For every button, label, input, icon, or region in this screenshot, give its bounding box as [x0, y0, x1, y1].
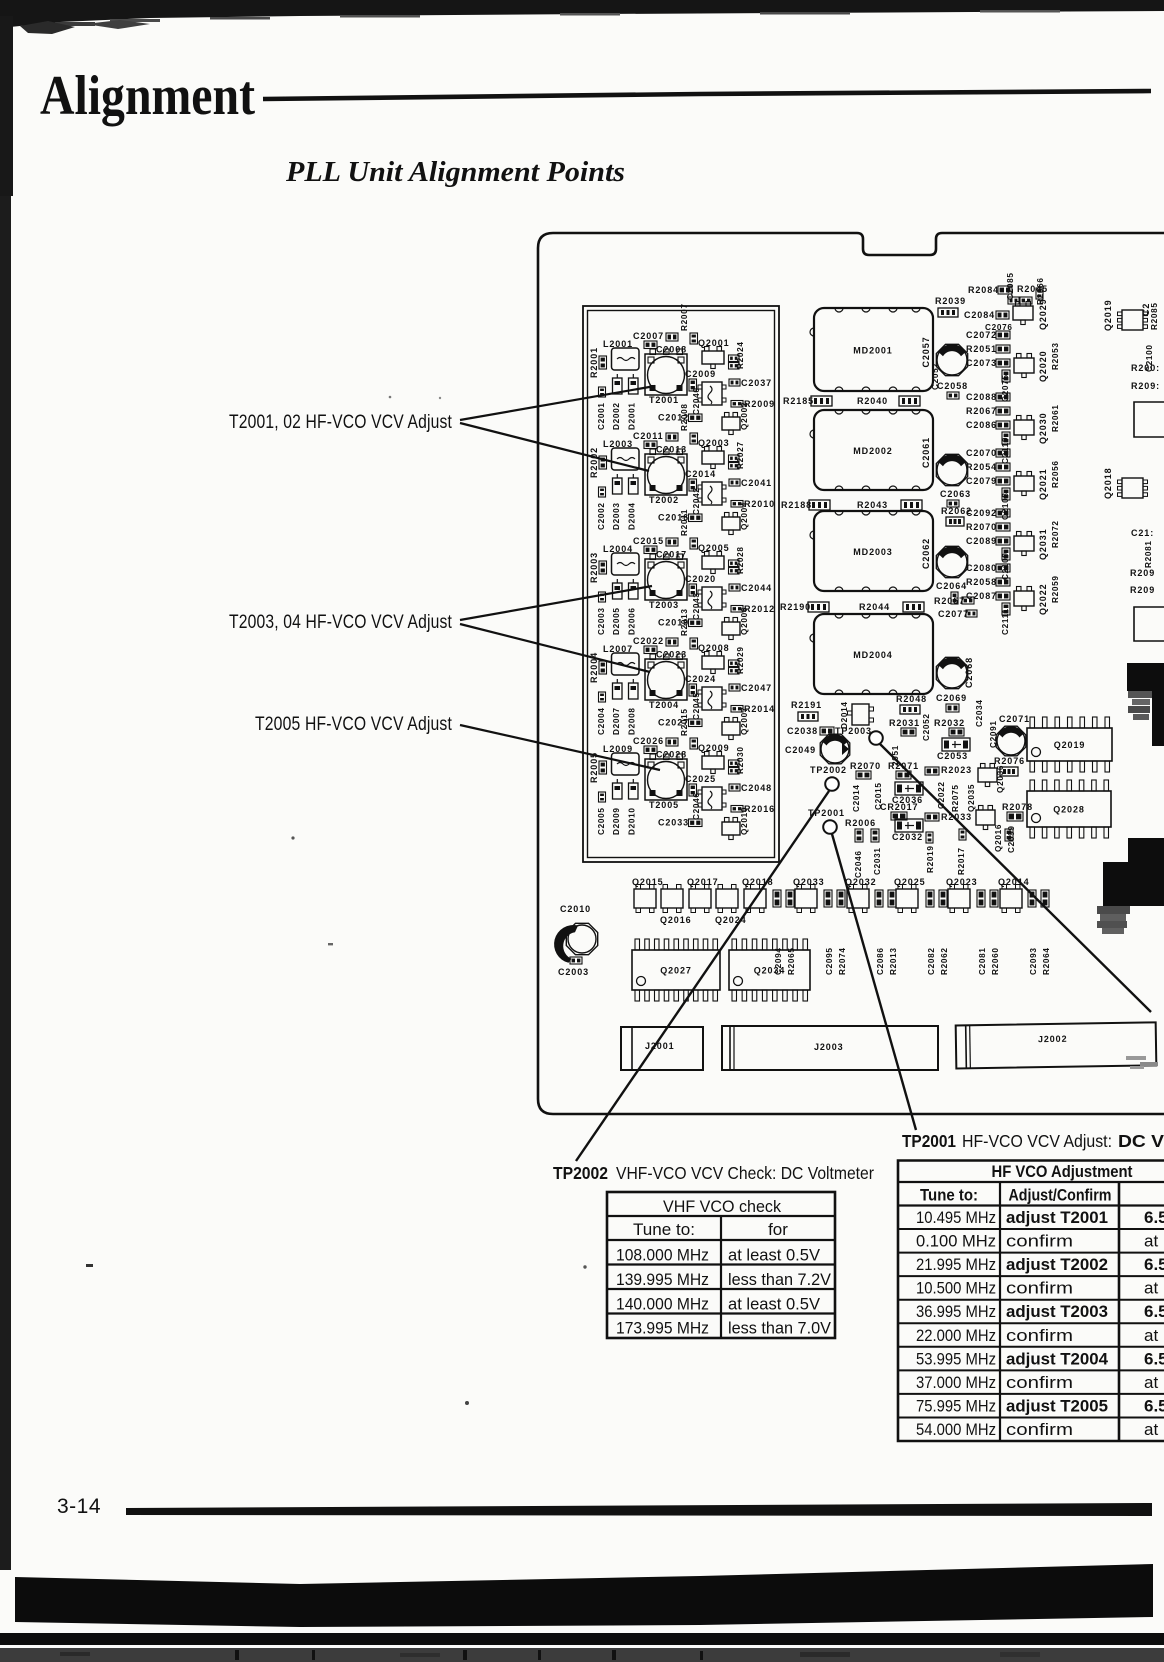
svg-text:R2058: R2058 — [966, 577, 997, 587]
label T2005 adjust — [255, 714, 452, 735]
resistor R2190 — [780, 602, 829, 612]
svg-text:C2070: C2070 — [966, 448, 997, 458]
svg-text:Q2021: Q2021 — [1038, 468, 1048, 500]
transistor Q2007 — [722, 707, 749, 740]
resistor R2070 — [850, 761, 881, 779]
svg-text:at k: at k — [1144, 1232, 1164, 1251]
transistor Q2035 — [967, 784, 976, 812]
svg-text:R2017: R2017 — [957, 847, 966, 875]
svg-text:140.000 MHz: 140.000 MHz — [616, 1294, 709, 1313]
svg-text:D2001: D2001 — [628, 402, 637, 430]
capacitor C2027 — [658, 718, 702, 728]
scan artifact: black bar above bottom edge — [15, 1564, 1153, 1627]
svg-text:R2013: R2013 — [889, 947, 898, 975]
transistor Q2016 — [660, 885, 692, 926]
svg-text:R2056: R2056 — [1051, 460, 1060, 488]
svg-text:Q2020: Q2020 — [1038, 350, 1048, 382]
capacitor C2063 — [940, 489, 971, 507]
resistor R2044 — [859, 602, 924, 612]
resistor R2061 — [1051, 404, 1060, 432]
svg-text:173.995 MHz: 173.995 MHz — [616, 1319, 709, 1338]
transformer T2001 (VCO adjust) — [645, 349, 687, 405]
capacitor C2037 — [729, 378, 772, 388]
resistor R2024 — [729, 341, 746, 369]
resistor R2007 — [680, 303, 698, 344]
capacitor C2100 — [1145, 344, 1154, 372]
svg-text:MD2002: MD2002 — [853, 446, 892, 456]
transistor Q2025 — [894, 877, 926, 913]
svg-text:R2053: R2053 — [1051, 342, 1060, 370]
capacitor C2073 — [966, 358, 1010, 368]
svg-text:MD2003: MD2003 — [853, 547, 892, 557]
svg-text:R2081: R2081 — [1144, 540, 1153, 568]
svg-text:adjust T2001: adjust T2001 — [1006, 1208, 1108, 1227]
svg-text:C2076: C2076 — [985, 323, 1013, 332]
svg-text:C2048: C2048 — [741, 783, 772, 793]
svg-text:C2046: C2046 — [692, 792, 701, 820]
capacitor C2064 — [936, 581, 967, 604]
svg-text:C2003: C2003 — [558, 967, 589, 977]
transistor Q2005 — [698, 543, 730, 574]
capacitor C2093 — [1028, 890, 1038, 975]
IC Q2019 (small) — [1103, 299, 1148, 331]
svg-text:Q2015: Q2015 — [632, 877, 664, 887]
svg-text:Q2007: Q2007 — [740, 707, 749, 735]
svg-text:R2030: R2030 — [736, 746, 745, 774]
resistor R2043 — [857, 500, 922, 510]
svg-text:C2061: C2061 — [921, 437, 931, 468]
svg-text:T2001: T2001 — [649, 395, 679, 405]
capacitor C2026 — [633, 736, 678, 754]
svg-text:at least 0.5V: at least 0.5V — [728, 1294, 821, 1313]
svg-text:J2003: J2003 — [814, 1042, 844, 1052]
capacitor C2028 — [656, 750, 687, 760]
capacitor C2075 — [1001, 370, 1010, 402]
svg-text:Q2036: Q2036 — [996, 765, 1005, 793]
module MD2002 — [810, 410, 933, 490]
svg-text:C2057: C2057 — [921, 336, 931, 367]
svg-text:at l: at l — [1144, 1420, 1164, 1439]
transistor Q2029 — [1013, 298, 1048, 330]
capacitor C2014b — [852, 784, 861, 812]
capacitor C2004 — [597, 692, 606, 735]
svg-text:Q2035: Q2035 — [967, 784, 976, 812]
svg-text:R2074: R2074 — [838, 947, 847, 975]
resistor R2094 cut label — [1130, 585, 1155, 595]
page heading "Alignment" — [40, 65, 255, 127]
svg-text:C2010: C2010 — [560, 904, 591, 914]
svg-text:C2086: C2086 — [966, 420, 997, 430]
svg-text:Q2030: Q2030 — [1038, 412, 1048, 444]
IC Q2018 (small) — [1103, 467, 1148, 499]
transistor Q2036 — [978, 764, 1005, 794]
test point TP2003 — [835, 726, 883, 745]
capacitor C2047 — [729, 683, 772, 693]
module MD2004 — [810, 614, 933, 694]
resistor R2076 — [994, 756, 1025, 776]
resistor R2013 — [888, 890, 898, 975]
svg-text:Q2014: Q2014 — [998, 877, 1030, 887]
resistor R2081 — [1144, 540, 1153, 568]
diode D2010 — [628, 779, 639, 835]
resistor R2185 — [783, 396, 832, 406]
capacitor C2017 — [656, 550, 687, 560]
capacitor C2019 — [658, 618, 702, 628]
svg-text:D2006: D2006 — [628, 607, 637, 635]
svg-text:C2025: C2025 — [685, 774, 716, 784]
capacitor C2057 can — [931, 344, 968, 390]
svg-text:C2089: C2089 — [966, 536, 997, 546]
svg-text:adjust T2005: adjust T2005 — [1006, 1396, 1108, 1415]
svg-text:C2042: C2042 — [692, 487, 701, 515]
svg-text:T2005 HF-VCO VCV Adjust: T2005 HF-VCO VCV Adjust — [255, 714, 452, 735]
svg-text:R2191: R2191 — [791, 700, 822, 710]
svg-text:C2095: C2095 — [825, 947, 834, 975]
svg-text:D2014: D2014 — [840, 701, 849, 729]
resistor CR2017 — [880, 802, 918, 820]
resistor R2070 — [966, 522, 1010, 532]
svg-text:R2078: R2078 — [1002, 802, 1033, 812]
capacitor C2013 — [656, 445, 687, 455]
svg-text:R2065: R2065 — [787, 947, 796, 975]
capacitor C2109 — [1001, 548, 1010, 580]
transistor Q2017 — [687, 877, 719, 913]
capacitor C2072 — [966, 330, 1010, 340]
capacitor C2003b — [558, 957, 589, 977]
crystal C2036 — [892, 782, 923, 805]
board outline: PLL unit PCB edge with notch — [538, 233, 1164, 1114]
resistor R2011 — [680, 509, 698, 549]
leader line to T2002 — [460, 423, 649, 471]
resistor R2017 — [957, 829, 966, 875]
IC Q2027 (DIP-18) — [632, 939, 720, 1001]
resistor R2059 — [1051, 575, 1060, 603]
resistor R2054 — [966, 462, 1010, 472]
capacitor C2071 can — [996, 714, 1030, 756]
capacitor C2041 — [729, 478, 772, 488]
caption TP2001 HF-VCO adjust — [902, 1131, 1164, 1151]
svg-text:C21:: C21: — [1131, 528, 1154, 538]
svg-text:R2062: R2062 — [940, 947, 949, 975]
capacitor C2011 — [633, 431, 678, 449]
svg-text:MD2001: MD2001 — [853, 346, 892, 356]
capacitor C2023 — [656, 650, 687, 660]
svg-text:J2002: J2002 — [1038, 1034, 1068, 1044]
resistor R2012 — [731, 604, 775, 614]
svg-text:C2071: C2071 — [999, 714, 1030, 724]
resistor R2001b cut label — [1131, 363, 1160, 373]
svg-text:T2005: T2005 — [649, 800, 679, 810]
svg-text:R2048: R2048 — [896, 694, 927, 704]
svg-text:0.100 MHz: 0.100 MHz — [916, 1232, 996, 1251]
capacitor C2076 — [985, 323, 1013, 332]
svg-text:C2073: C2073 — [966, 358, 997, 368]
svg-text:R2072: R2072 — [1051, 520, 1060, 548]
transistor Q2022 — [1014, 583, 1048, 615]
capacitor C2008 — [656, 345, 687, 355]
capacitor C2044 — [729, 583, 772, 593]
transistor Q2021 — [1014, 468, 1048, 500]
capacitor C2031 — [873, 847, 882, 875]
resistor R2040 — [857, 396, 920, 406]
svg-text:D2005: D2005 — [612, 607, 621, 635]
svg-text:R2013: R2013 — [680, 608, 689, 636]
resistor R2010 — [731, 499, 775, 509]
footer rule — [126, 1503, 1152, 1516]
leader line to T2001 — [460, 386, 655, 420]
svg-text:139.995 MHz: 139.995 MHz — [616, 1270, 709, 1289]
svg-text:R2028: R2028 — [736, 546, 745, 574]
svg-text:R2075: R2075 — [951, 784, 960, 812]
resistor R2015 — [680, 708, 698, 749]
svg-text:C2001: C2001 — [597, 402, 606, 430]
svg-text:C2082: C2082 — [927, 947, 936, 975]
svg-text:VHF-VCO VCV Check: DC Voltmete: VHF-VCO VCV Check: DC Voltmeter — [616, 1163, 874, 1183]
svg-text:R2070: R2070 — [966, 522, 997, 532]
svg-text:D2010: D2010 — [628, 807, 637, 835]
svg-text:C2047: C2047 — [741, 683, 772, 693]
resistor R2053 — [1051, 342, 1060, 370]
svg-text:R2085: R2085 — [1150, 302, 1159, 330]
capacitor C2077 — [938, 609, 977, 619]
svg-text:adjust T2004: adjust T2004 — [1006, 1349, 1109, 1368]
svg-text:R2003: R2003 — [589, 552, 599, 583]
transistor C2046 buffer — [692, 787, 726, 820]
svg-text:C2022: C2022 — [633, 636, 664, 646]
leader line to T2004 — [460, 624, 650, 672]
transistor Q2020 — [1014, 350, 1048, 382]
capacitor C2009 — [685, 369, 716, 391]
transistor Q2009 — [698, 743, 730, 774]
capacitor C2048 — [729, 783, 772, 793]
capacitor C2060 can — [936, 454, 967, 485]
svg-text:37.000 MHz: 37.000 MHz — [916, 1373, 996, 1392]
transistor Q2002 — [722, 402, 749, 435]
svg-text:D2009: D2009 — [612, 807, 621, 835]
capacitor C2052 — [922, 713, 931, 741]
capacitor C2015 — [633, 536, 678, 554]
transistor Q2030 — [1014, 412, 1048, 444]
capacitor C2081 — [977, 890, 987, 975]
transistor C2040 buffer — [692, 382, 726, 415]
svg-text:53.995 MHz: 53.995 MHz — [916, 1349, 996, 1368]
resistor R2006 — [845, 818, 879, 842]
transistor Q2004 — [722, 502, 749, 535]
svg-text:54.000 MHz: 54.000 MHz — [916, 1420, 996, 1439]
capacitor C2091 — [989, 720, 998, 748]
svg-text:R2027: R2027 — [736, 441, 745, 469]
svg-text:C2020: C2020 — [685, 574, 716, 584]
label T2003/T2004 adjust — [229, 612, 452, 633]
svg-text:TP2002: TP2002 — [810, 765, 847, 775]
svg-text:Q2009: Q2009 — [698, 743, 730, 753]
capacitor C2049 can — [785, 734, 850, 764]
transistor Q2010 — [722, 807, 749, 840]
inductor L2001 — [603, 339, 639, 370]
capacitor C2034 — [975, 699, 984, 727]
svg-text:confirm: confirm — [1006, 1279, 1073, 1298]
svg-text:D2007: D2007 — [612, 707, 621, 735]
svg-text:C2069: C2069 — [936, 693, 967, 703]
resistor R2048 — [896, 694, 927, 714]
transistor Q2033 — [793, 877, 825, 913]
resistor R2030 — [729, 746, 746, 774]
svg-text:Q2022: Q2022 — [1038, 583, 1048, 615]
svg-text:R2044: R2044 — [859, 602, 890, 612]
table HF VCO Adjustment — [898, 1161, 1164, 1442]
capacitor C2080 — [966, 563, 1010, 573]
transistor Q2001 — [698, 338, 730, 369]
capacitor C2025 — [685, 774, 716, 796]
capacitor C2086 — [966, 420, 1010, 430]
inductor L2004 — [603, 544, 639, 575]
svg-text:C2053: C2053 — [937, 751, 968, 761]
svg-text:R2023: R2023 — [941, 765, 972, 775]
crystal C2032 — [892, 819, 923, 842]
svg-text:CR2017: CR2017 — [880, 802, 918, 812]
resistor R2072 — [1051, 520, 1060, 548]
svg-text:21.995 MHz: 21.995 MHz — [916, 1255, 996, 1274]
capacitor C2003 — [597, 592, 606, 635]
svg-text:R2188: R2188 — [781, 500, 812, 510]
svg-text:T2002: T2002 — [649, 495, 679, 505]
svg-text:C2033: C2033 — [658, 818, 689, 828]
svg-text:R2029: R2029 — [736, 646, 745, 674]
svg-text:C2079: C2079 — [966, 476, 997, 486]
svg-text:Q2019: Q2019 — [1103, 299, 1113, 331]
capacitor C2087 — [966, 591, 1010, 601]
capacitor C2110 — [1001, 432, 1010, 464]
svg-text:C2038: C2038 — [787, 726, 818, 736]
leader line to T2005 — [460, 725, 660, 770]
resistor R2191 — [791, 700, 822, 721]
capacitor C2082 — [926, 890, 936, 975]
svg-text:C2032: C2032 — [892, 832, 923, 842]
svg-text:less than 7.0V: less than 7.0V — [728, 1319, 832, 1338]
svg-text:R2040: R2040 — [857, 396, 888, 406]
resistor R2085 — [1150, 302, 1159, 330]
svg-text:C2108: C2108 — [1001, 492, 1010, 520]
resistor R2045 — [1017, 284, 1048, 304]
svg-text:R2054: R2054 — [966, 462, 997, 472]
svg-text:Q2019: Q2019 — [1054, 740, 1086, 750]
capacitor C21 cut label — [1131, 528, 1154, 538]
svg-text:Adjust/Confirm: Adjust/Confirm — [1009, 1186, 1112, 1205]
capacitor C2019b — [1005, 829, 1013, 841]
capacitor C2058 — [937, 381, 968, 399]
svg-text:C2084: C2084 — [964, 310, 995, 320]
capacitor C2022 — [633, 636, 678, 654]
svg-text:C2026: C2026 — [633, 736, 664, 746]
leader line from TP2003 — [880, 744, 1151, 1012]
resistor R2057 — [934, 596, 974, 606]
scan artifact: black blob right edge lower — [1097, 838, 1164, 934]
resistor R2065 — [786, 890, 796, 975]
capacitor C2108 — [1001, 488, 1010, 520]
caption TP2002 VHF-VCO check — [553, 1163, 874, 1183]
svg-text:adjust T2003: adjust T2003 — [1006, 1302, 1108, 1321]
svg-text:less than 7.2V: less than 7.2V — [728, 1270, 832, 1289]
leader line to T2003 — [460, 586, 652, 620]
svg-text:3-14: 3-14 — [57, 1495, 101, 1518]
svg-text:C2093: C2093 — [1029, 947, 1038, 975]
svg-text:C2063: C2063 — [940, 489, 971, 499]
resistor R2078 — [1002, 802, 1033, 821]
svg-text:R2067: R2067 — [966, 406, 997, 416]
svg-text:Q2004: Q2004 — [740, 502, 749, 530]
svg-text:R2031: R2031 — [889, 718, 920, 728]
svg-text:Q2017: Q2017 — [687, 877, 719, 887]
resistor R2029 — [729, 646, 746, 674]
capacitor C2092 — [966, 508, 1010, 518]
svg-text:C2085: C2085 — [1006, 272, 1015, 300]
svg-text:Q2025: Q2025 — [894, 877, 926, 887]
svg-text:R2057: R2057 — [934, 596, 965, 606]
svg-text:R2070: R2070 — [850, 761, 881, 771]
svg-text:108.000 MHz: 108.000 MHz — [616, 1246, 709, 1265]
capacitor C2046b — [854, 850, 863, 878]
svg-text:confirm: confirm — [1006, 1232, 1073, 1251]
capacitor C2070 — [966, 448, 1010, 458]
capacitor C2094 — [773, 890, 783, 975]
svg-text:C2002: C2002 — [597, 502, 606, 530]
svg-text:C2040: C2040 — [692, 387, 701, 415]
diode D2008 — [628, 679, 639, 735]
transistor Q2023 — [946, 877, 978, 913]
test point TP2001 — [808, 808, 845, 834]
capacitor C2010 can — [554, 904, 598, 963]
leader line from TP2001 — [832, 834, 916, 1130]
svg-text:Q2002: Q2002 — [740, 402, 749, 430]
resistor R2008 — [680, 403, 698, 444]
resistor R2062 — [939, 890, 949, 975]
svg-text:Tune to:: Tune to: — [920, 1186, 978, 1205]
capacitor C2022b — [937, 781, 946, 809]
svg-text:R209:: R209: — [1131, 381, 1160, 391]
svg-text:R209: R209 — [1130, 568, 1155, 578]
resistor R2060 — [990, 890, 1000, 975]
svg-text:at l: at l — [1144, 1373, 1164, 1392]
svg-text:confirm: confirm — [1006, 1420, 1073, 1439]
diode D2001 — [628, 374, 639, 430]
inductor L2009 — [603, 744, 639, 775]
svg-text:Q2029: Q2029 — [1038, 298, 1048, 330]
capacitor C2016 — [658, 513, 702, 523]
capacitor C2024 — [685, 674, 716, 696]
svg-text:6.5: 6.5 — [1144, 1255, 1164, 1274]
svg-text:T2004: T2004 — [649, 700, 679, 710]
resistor R2056 — [1051, 460, 1060, 488]
svg-text:D2008: D2008 — [628, 707, 637, 735]
capacitor C2015b — [874, 782, 883, 810]
svg-text:at l: at l — [1144, 1326, 1164, 1345]
test point TP2002 — [810, 765, 847, 791]
svg-text:adjust T2002: adjust T2002 — [1006, 1255, 1108, 1274]
component outline box (cut) — [1134, 402, 1164, 437]
scan artifact: bottom edge strips — [0, 1633, 1164, 1662]
resistor R2005 — [589, 752, 607, 783]
diode D2004 — [628, 474, 639, 530]
resistor R2001 — [589, 347, 607, 378]
diode D2005 — [612, 579, 622, 635]
svg-text:at l: at l — [1144, 1279, 1164, 1298]
svg-text:T2003, 04 HF-VCO VCV Adjust: T2003, 04 HF-VCO VCV Adjust — [229, 612, 452, 633]
capacitor C2033 — [658, 818, 702, 828]
svg-text:C2037: C2037 — [741, 378, 772, 388]
resistor R2009 — [731, 399, 775, 409]
capacitor C2079 — [966, 476, 1010, 486]
svg-text:confirm: confirm — [1006, 1326, 1073, 1345]
